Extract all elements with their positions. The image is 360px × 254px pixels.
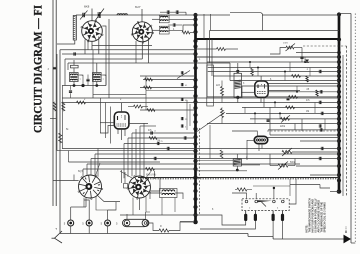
- capacitor C at 320,71.5: [318, 70, 320, 73]
- border mark tick: [50, 118, 56, 120]
- wire R5 left: [196, 48, 217, 50]
- diagonal AVC wire: [196, 112, 226, 133]
- wire bottom step2: [272, 236, 274, 239]
- capacitor C12: [183, 136, 185, 139]
- resistor R7 vertical: [59, 133, 62, 143]
- junction on V2 bus: [337, 178, 341, 182]
- resistor R10: [146, 168, 155, 171]
- wire T1 pin drop b: [87, 41, 89, 50]
- junction on V1 bus: [193, 59, 197, 63]
- pot arrow y76: [177, 71, 190, 79]
- mains plug at 255.4: [254, 211, 256, 214]
- wire IFT4 bottom: [236, 166, 238, 170]
- capacitor C at 320,102.4: [318, 101, 320, 104]
- wire ladder y141: [300, 140, 339, 142]
- wire ladder y86.0: [242, 85, 339, 87]
- wire top right corner: [339, 13, 351, 15]
- resistor R20: [159, 229, 169, 232]
- wire choke left: [150, 193, 162, 199]
- capacitor C at 321,91.8: [319, 90, 321, 93]
- wire drop V5 p2: [127, 138, 129, 177]
- resistor R22: [145, 78, 153, 81]
- wire under tubes y45.5: [92, 45, 152, 47]
- V1 bus end dot: [193, 220, 198, 225]
- wire drop x105.5: [105, 103, 107, 139]
- mains plug at 273.1: [272, 211, 274, 214]
- wire IFT side b: [101, 75, 106, 86]
- wire plug4 down: [282, 221, 284, 239]
- tube V2 IF amplifier: [132, 22, 152, 42]
- wire fan2 y158.5: [91, 158, 339, 160]
- junction on V1 bus: [193, 159, 197, 163]
- wire plug link horiz: [290, 184, 320, 186]
- junction on V1 bus: [193, 142, 197, 146]
- wire RT2 right a: [268, 82, 339, 84]
- resistor R25 vertical: [251, 68, 254, 75]
- wire x230 drop: [229, 63, 231, 81]
- junction on V1 bus: [193, 135, 197, 139]
- resistor R12 vertical: [221, 109, 224, 118]
- socket terminal 2: [86, 220, 92, 226]
- wire box top stub2: [273, 188, 275, 199]
- wire drop V4 p5: [97, 149, 99, 177]
- junction on V1 bus: [193, 52, 197, 56]
- wire RT3 bottom: [258, 144, 260, 151]
- wire R20 left: [149, 223, 159, 231]
- wire drop V5 p6: [143, 123, 145, 178]
- wire IFT2 top: [96, 63, 98, 73]
- wire T2 bottom drop: [141, 42, 143, 59]
- wire stub x290: [289, 62, 291, 72]
- resistor R19: [292, 75, 301, 78]
- wire RT1 left: [100, 122, 114, 124]
- wire left col x57: [56, 54, 58, 151]
- junction on V1 bus: [193, 39, 197, 43]
- junction on V2 bus: [337, 139, 341, 143]
- wire y87.5: [140, 87, 196, 89]
- junction on V2 bus: [337, 37, 341, 41]
- wire box top stub1: [255, 193, 257, 199]
- HT rail bus V2 (thick vertical right): [338, 14, 341, 193]
- wire vert x146: [145, 76, 147, 110]
- wire IFT3 top: [237, 63, 239, 73]
- wire right thin x343: [342, 55, 344, 196]
- capacitor C24: [150, 131, 152, 134]
- wire ladder y91.8: [268, 91, 339, 93]
- IF transformer IFT4: [233, 159, 241, 166]
- resistor R11 vertical: [221, 87, 224, 96]
- wire y215 step: [196, 215, 240, 225]
- junction on V1 bus: [193, 13, 197, 17]
- capacitor C23 on y54: [73, 52, 75, 55]
- wire choke right: [175, 193, 183, 199]
- wire L1 bottom to left rail: [57, 40, 75, 44]
- capacitor C at 321,129.9: [319, 128, 321, 131]
- wire stub x297: [296, 86, 298, 92]
- V2 bus end dot: [337, 189, 342, 194]
- wire y57 link: [196, 56, 339, 58]
- wire V5 pin drop b: [146, 197, 150, 213]
- capacitor C17: [180, 98, 182, 101]
- junction on V1 bus: [193, 149, 197, 153]
- tube V3 detector (rounded box): [114, 112, 129, 129]
- resistor R4 on y102.5: [77, 101, 86, 104]
- wire mains drop x209.5: [209, 31, 211, 64]
- wire V5 right pin: [150, 178, 160, 192]
- capacitor C at 320,158.5: [318, 157, 320, 160]
- wire x207 drop: [206, 40, 208, 97]
- wire RT2 top: [260, 76, 262, 81]
- junction on V2 bus: [337, 78, 341, 82]
- wire y221.5 stub: [180, 221, 193, 223]
- dashed link to V2: [303, 45, 347, 47]
- junction on V2 bus: [337, 152, 341, 156]
- junction on V1 bus: [193, 197, 197, 201]
- wire x302 drop: [301, 119, 303, 131]
- wire IFT1 bottom stub: [73, 82, 75, 86]
- wire y215 horiz: [120, 214, 196, 216]
- switch terminal at 246.5: [245, 200, 248, 203]
- wire V4 bottom drop: [85, 198, 87, 208]
- wire pill up: [126, 214, 128, 219]
- wire mains y30.5: [210, 30, 340, 32]
- junction on V1 bus: [193, 85, 197, 89]
- wire pot left: [270, 165, 278, 167]
- resistor R27 vertical: [316, 90, 318, 96]
- wire RT3 top: [232, 131, 257, 136]
- junction on V2 bus: [337, 105, 341, 109]
- wire RT2 right b: [268, 89, 300, 91]
- capacitor C10: [153, 157, 155, 160]
- wire under tubes y49.8: [60, 49, 196, 51]
- wire x242 drop: [241, 86, 243, 98]
- wire x212 drop: [211, 40, 213, 77]
- wire fan2 y154: [95, 153, 339, 155]
- wire x247 drop: [246, 144, 248, 160]
- speaker arrow: [344, 235, 352, 244]
- wire fan2 y133: [132, 132, 196, 134]
- wire IFT side a: [78, 75, 83, 86]
- junction on V1 bus: [193, 205, 197, 209]
- wire stub x250: [249, 62, 251, 68]
- wire y76: [140, 75, 196, 77]
- junction on V2 bus: [337, 121, 341, 125]
- capacitor C at 322,113.4: [320, 112, 322, 115]
- wire RT1 right: [129, 122, 148, 124]
- wire stub x275: [274, 102, 276, 107]
- dashed parallel to V1: [199, 128, 201, 215]
- capacitor C19: [180, 124, 182, 127]
- border mark cap: [53, 66, 56, 68]
- aerial coil L1 hatched: [73, 16, 76, 41]
- svg-text:CIRCUIT DIAGRAM — FI: CIRCUIT DIAGRAM — FI: [32, 5, 45, 133]
- junction on V2 bus: [337, 60, 341, 64]
- wire stub x310: [309, 68, 311, 77]
- junction on V1 bus: [193, 182, 197, 186]
- tube V6 (rounded box right): [255, 81, 268, 97]
- wire left col x65: [64, 59, 66, 86]
- junction on V2 bus: [337, 111, 341, 115]
- resistor R1 boxstyle: [71, 65, 79, 68]
- wire diag V4: [95, 163, 100, 177]
- wire socket1 down: [70, 226, 72, 234]
- capacitor C8: [86, 78, 89, 80]
- junction dots ladder: [249, 61, 251, 63]
- wire IFT4 top: [236, 154, 238, 159]
- wire T2 pin drop b: [135, 41, 137, 63]
- chassis bus H2 (hatched horizontal): [138, 177, 339, 179]
- wire V1 pin to right: [98, 37, 100, 55]
- junction on V1 bus: [193, 213, 197, 217]
- wire ladder y71.5: [208, 71, 339, 73]
- dashed y131 right: [267, 130, 339, 132]
- wire drop V4 p2: [86, 164, 88, 176]
- rheostat R21: [286, 46, 294, 49]
- resistor R23: [144, 86, 152, 89]
- junction on V1 bus: [193, 175, 197, 179]
- frame left outer line: [55, 0, 57, 206]
- wire plug3 down: [272, 221, 274, 237]
- wire RT3 left: [247, 140, 254, 144]
- svg-text:6U7: 6U7: [135, 5, 141, 9]
- wire RT1 hook: [100, 126, 114, 134]
- socket terminal 3: [105, 220, 111, 226]
- wire top grid line right of box: [262, 14, 339, 16]
- wire rheostat left: [270, 48, 286, 55]
- wire ladder y107.4: [242, 106, 339, 108]
- resistor R8: [149, 137, 157, 140]
- wire RT1 bottom pins: [117, 129, 119, 134]
- mains switch dashed box: [242, 199, 289, 211]
- IF coil L3b: [159, 26, 169, 34]
- IF transformer IFT3: [234, 73, 241, 97]
- junction on V2 bus: [337, 133, 341, 137]
- wire V4 pin drop b: [96, 196, 108, 210]
- wire drop V5 p1: [123, 144, 125, 179]
- wire RT1 top: [121, 103, 123, 112]
- HT supply bus V1 (thick vertical): [194, 15, 197, 223]
- note text block: [305, 198, 326, 233]
- wire V4 right bottom: [97, 195, 120, 202]
- wire stub x255: [254, 113, 256, 123]
- capacitor C21: [287, 97, 290, 99]
- wire socket2 down: [88, 226, 90, 234]
- diode D1: [305, 60, 309, 63]
- wire fan2 y138: [128, 137, 196, 139]
- wire ladder y118.9: [250, 118, 339, 120]
- IF coil L3a: [159, 15, 169, 23]
- resistor R17: [289, 95, 298, 98]
- volume control pot R15: [278, 164, 288, 167]
- wire fan y59: [65, 58, 142, 60]
- wire y150.6: [196, 150, 233, 152]
- junction on V2 bus: [337, 12, 341, 16]
- junction on V2 bus: [337, 100, 341, 104]
- tuning gang capacitor VC1: [97, 12, 99, 18]
- wire RT2 bottom: [260, 97, 262, 102]
- junction on V1 bus: [193, 66, 197, 70]
- tube V1 frequency changer: [82, 21, 103, 42]
- wire vert x204: [203, 14, 205, 39]
- wire y90.5: [146, 90, 196, 92]
- svg-text:220k: 220k: [280, 126, 286, 128]
- wire drop V5 p3: [131, 133, 133, 176]
- junction on V2 bus: [337, 156, 341, 160]
- wire socket2 up: [84, 200, 89, 220]
- wire plug2 down: [200, 221, 255, 229]
- wire IFT3 bottom: [237, 97, 239, 102]
- junction on V1 bus: [193, 167, 197, 171]
- wire box top stub3: [232, 193, 247, 199]
- wire IFT row bottom: [62, 85, 106, 87]
- wire box around V1 b: [108, 19, 110, 98]
- junction on V2 bus: [337, 90, 341, 94]
- wire stub x110.5 top: [111, 106, 129, 108]
- HT bus H1 (thick horizontal): [196, 38, 340, 40]
- capacitor C16: [180, 83, 182, 86]
- junction on V2 bus: [337, 173, 341, 177]
- resistor R6 on y102.5: [134, 105, 143, 108]
- wire V4 left pin: [53, 180, 79, 182]
- junction on V1 bus: [193, 17, 197, 21]
- resistor R2 vertical: [62, 102, 65, 111]
- wire bottom step1: [247, 234, 249, 237]
- speaker label leader: [345, 227, 347, 232]
- wire vert x190: [189, 104, 191, 126]
- filter choke coils: [160, 189, 178, 198]
- wire ladder y96.9: [207, 96, 339, 98]
- wire drop V4 p1: [82, 169, 84, 177]
- wire x93 upper: [92, 50, 94, 86]
- switch terminal at 256.2: [255, 200, 258, 203]
- resistor R2b vertical: [53, 102, 56, 111]
- junction on V2 bus: [337, 95, 341, 99]
- small box mid: [207, 65, 214, 106]
- wire drop x57b: [56, 146, 58, 151]
- wire y164.9: [241, 164, 260, 166]
- junction on V1 bus: [193, 100, 197, 104]
- svg-text:1M: 1M: [306, 111, 309, 113]
- mains plug at 282.5: [282, 211, 284, 214]
- wire fan2 y148.5: [62, 148, 339, 150]
- wire rheostat right: [294, 47, 302, 49]
- tube V4 output triode: [79, 175, 102, 198]
- wire bottom mid: [248, 235, 273, 237]
- wire ladder y129.9: [268, 129, 339, 131]
- fuse holder pill: [123, 219, 149, 226]
- wire vert x210 mid: [209, 125, 211, 159]
- wire RT2 left: [241, 91, 254, 93]
- frame right dashed: [346, 46, 348, 196]
- capacitor C15: [180, 71, 182, 74]
- wire V4 left corner: [73, 175, 75, 181]
- wire y160.5 mid: [196, 160, 233, 162]
- junction on V2 bus: [337, 84, 341, 88]
- coupling capacitor C4: [175, 10, 177, 14]
- capacitor C11: [166, 147, 168, 150]
- wire stub x305: [304, 57, 306, 62]
- wire drop V4 p3: [90, 159, 92, 176]
- junction on V2 bus: [337, 164, 341, 168]
- wire R5 right: [226, 48, 239, 50]
- wire R3 to bus: [190, 32, 196, 34]
- wire IFT2 bottom stub: [96, 82, 98, 86]
- resistor R14: [281, 117, 290, 120]
- IF transformer IFT2: [93, 73, 102, 82]
- wire T2 pin drop: [148, 38, 150, 64]
- tone pot R16: [282, 150, 292, 153]
- wire fan2 y164: [87, 163, 300, 165]
- wire between tubes: [121, 170, 123, 183]
- wire T2 to L3a: [152, 18, 161, 20]
- junction on V2 bus: [337, 128, 341, 132]
- wire V5 top stub: [154, 171, 156, 179]
- IF transformer IFT1: [70, 73, 79, 82]
- wire stub x258: [257, 68, 259, 77]
- junction on V1 bus: [193, 44, 197, 48]
- svg-text:SPEECH COIL IS 3 OHMS: SPEECH COIL IS 3 OHMS: [323, 202, 326, 233]
- capacitor C6: [172, 23, 174, 26]
- wire x93 drop: [92, 86, 94, 99]
- wire L3b to bus: [168, 25, 195, 30]
- junction on V1 bus: [193, 94, 197, 98]
- wire x295 drop: [294, 124, 296, 130]
- resistor R24: [147, 109, 155, 112]
- wire bus end left: [330, 191, 339, 193]
- wire y94.7 left: [93, 94, 146, 96]
- wire stub x245: [244, 107, 246, 113]
- junction on V2 bus: [337, 65, 341, 69]
- wire fan y63 right: [149, 62, 231, 64]
- wire socket1 up: [70, 207, 72, 220]
- capacitor C at 320,126: [318, 124, 320, 127]
- wire drop V4 p4: [94, 154, 96, 176]
- wire ladder y175: [310, 174, 339, 176]
- junction on V1 bus: [193, 106, 197, 110]
- aerial symbol: [55, 231, 63, 243]
- resistor R3: [182, 31, 190, 34]
- wire plug1 down: [240, 221, 246, 225]
- wire V4 pin drop a: [83, 198, 85, 207]
- wire stub x280: [279, 113, 281, 119]
- junction on V1 bus: [193, 120, 197, 124]
- trimmer capacitor TC1: [82, 13, 84, 18]
- wire y150.6 left: [57, 150, 196, 152]
- junction on V2 bus: [337, 55, 341, 59]
- resistor R18: [224, 48, 226, 50]
- wire drop x68.5: [68, 151, 70, 162]
- svg-text:6Q7: 6Q7: [78, 169, 83, 173]
- wire ladder y62.0: [207, 61, 339, 63]
- small box between tubes: [124, 184, 128, 189]
- wire y186 under chassis: [253, 185, 290, 187]
- wire ladder y57.0: [197, 56, 340, 58]
- wire cluster to V2: [296, 52, 339, 54]
- wire R20 right: [169, 222, 193, 231]
- wire fan2 y143.5: [124, 143, 196, 145]
- wire ladder y80.5: [230, 80, 339, 82]
- wire y170.8: [196, 170, 247, 172]
- wire V5 pin drop a: [132, 198, 134, 216]
- wire tone right: [292, 151, 339, 153]
- mains plug at 245.7: [245, 211, 247, 214]
- wire ladder y113.4: [226, 112, 339, 114]
- tube V5 output pentode: [129, 176, 151, 198]
- wire stub x285: [284, 72, 286, 81]
- wire drop x100.5: [100, 98, 102, 133]
- wire stub x325: [324, 119, 326, 130]
- frame bottom right link: [351, 242, 355, 244]
